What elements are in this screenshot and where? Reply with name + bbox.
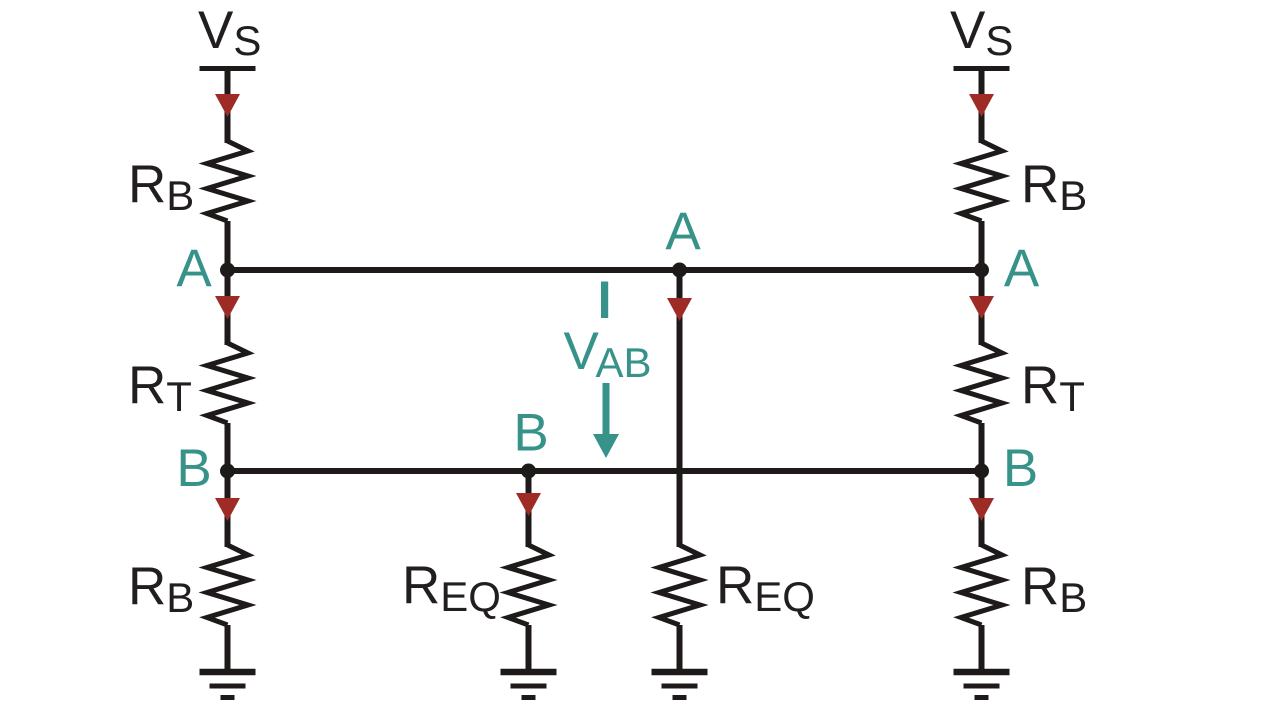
node B (middle) — [521, 464, 536, 479]
wire RB to node A (left) — [225, 221, 231, 273]
current arrow (left, middle) — [215, 296, 240, 319]
resistor RB (right top) — [961, 141, 1002, 221]
svg-text:VS: VS — [198, 1, 261, 64]
resistor RT (right) — [961, 343, 1002, 423]
svg-text:RB: RB — [1021, 557, 1087, 621]
wire VS to RB (left top) — [225, 69, 231, 143]
wire REQ to ground (middle left) — [526, 625, 532, 672]
wire RB to ground (right) — [979, 625, 985, 672]
node A (left) — [220, 263, 235, 278]
wire RB to node A (right) — [979, 221, 985, 273]
wire node line A — [228, 267, 982, 273]
source VS (left) terminal bar — [200, 66, 256, 71]
svg-text:A: A — [665, 202, 701, 261]
svg-text:RT: RT — [128, 356, 192, 420]
svg-text:REQ: REQ — [716, 556, 815, 620]
svg-text:RB: RB — [128, 557, 194, 621]
VAB arrow — [603, 383, 610, 440]
svg-text:A: A — [1004, 239, 1040, 298]
current arrow (middle left) — [516, 493, 541, 516]
svg-text:RB: RB — [128, 155, 194, 219]
wire node B to RB (right bottom) — [979, 468, 985, 547]
resistor RB (left bottom) — [207, 545, 248, 625]
wire REQ to ground (middle right) — [677, 625, 683, 672]
current arrow (right, bottom) — [969, 498, 994, 521]
wire VS to RB (right top) — [979, 69, 985, 143]
resistor REQ (middle right) — [659, 545, 700, 625]
ground (middle left) — [501, 672, 557, 698]
current arrow (left, bottom) — [215, 498, 240, 521]
svg-text:VS: VS — [950, 1, 1013, 64]
svg-text:B: B — [1003, 439, 1038, 498]
node B (left) — [220, 464, 235, 479]
node A (right) — [974, 263, 989, 278]
node A (middle) — [672, 263, 687, 278]
current arrow (right, top) — [969, 94, 994, 117]
wire node A to RT (right) — [979, 267, 985, 345]
ground (left) — [200, 672, 256, 698]
resistor RB (left top) — [207, 141, 248, 221]
wire RT to node B (left) — [225, 423, 231, 474]
wire RT to node B (right) — [979, 423, 985, 474]
svg-text:B: B — [513, 404, 548, 463]
resistor REQ (middle left) — [508, 545, 549, 625]
node B (right) — [974, 464, 989, 479]
current arrow (left, top) — [215, 94, 240, 117]
svg-text:REQ: REQ — [402, 556, 501, 620]
current arrow (middle right) — [667, 298, 692, 321]
label I (current) — [601, 282, 608, 319]
svg-text:B: B — [176, 439, 211, 498]
svg-text:A: A — [176, 239, 212, 298]
resistor RT (left) — [207, 343, 248, 423]
current arrow (right, middle) — [969, 296, 994, 319]
svg-text:RT: RT — [1021, 356, 1085, 420]
wire node B to REQ (middle left) — [526, 468, 532, 547]
wire node B to RB (left bottom) — [225, 468, 231, 547]
svg-text:AB: AB — [596, 339, 652, 386]
wire node A down through line B to REQ (middle right) — [677, 267, 683, 547]
resistor RB (right bottom) — [961, 545, 1002, 625]
ground (right) — [954, 672, 1010, 698]
wire node A to RT (left) — [225, 267, 231, 345]
wire RB to ground (left) — [225, 625, 231, 672]
wire node line B — [228, 468, 982, 474]
svg-text:V: V — [564, 322, 600, 381]
source VS (right) terminal bar — [954, 66, 1010, 71]
svg-text:RB: RB — [1021, 155, 1087, 219]
ground (middle right) — [652, 672, 708, 698]
